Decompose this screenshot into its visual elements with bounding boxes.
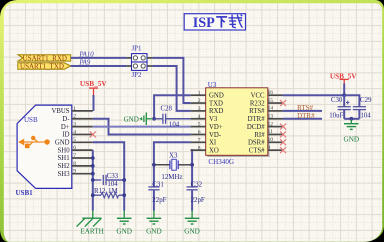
svg-text:104: 104 bbox=[107, 181, 118, 188]
junction crystal right bbox=[190, 163, 194, 167]
svg-text:U3: U3 bbox=[208, 81, 217, 89]
svg-text:GND: GND bbox=[55, 140, 70, 147]
svg-text:USB: USB bbox=[24, 116, 38, 124]
USB trident icon bbox=[18, 136, 50, 149]
svg-text:5: 5 bbox=[73, 137, 76, 143]
svg-text:V3: V3 bbox=[209, 116, 218, 123]
svg-text:3: 3 bbox=[198, 106, 201, 112]
USB1 pin 5 GND bbox=[72, 141, 93, 143]
svg-text:DSR#: DSR# bbox=[248, 140, 265, 147]
svg-text:104: 104 bbox=[360, 112, 371, 119]
svg-text:DTR#: DTR# bbox=[297, 112, 315, 120]
capacitor C29 104 bbox=[353, 106, 366, 108]
ground GND under C31 bbox=[153, 211, 155, 219]
U3 pin 10 DSR# bbox=[268, 141, 283, 143]
junction C33 left bbox=[91, 178, 95, 182]
wire DTR# bbox=[283, 118, 322, 120]
svg-text:9: 9 bbox=[73, 169, 76, 175]
header JP2 bbox=[132, 62, 148, 70]
svg-text:ISP: ISP bbox=[193, 15, 215, 31]
svg-text:104: 104 bbox=[169, 121, 180, 128]
ground GND under C32 bbox=[191, 211, 193, 219]
wire U3 XO pin8 to crystal bbox=[191, 150, 192, 187]
USB1 pin 4 ID bbox=[72, 133, 93, 135]
port USART1_TXD bbox=[18, 63, 71, 69]
svg-text:4: 4 bbox=[73, 129, 76, 135]
junction SH1 bbox=[91, 156, 95, 160]
U3 pin 12 DCD# bbox=[268, 126, 283, 128]
svg-text:VCC: VCC bbox=[251, 93, 265, 100]
svg-text:C28: C28 bbox=[161, 106, 173, 113]
svg-text:14: 14 bbox=[268, 106, 274, 112]
JP2 pin stubs bbox=[126, 65, 131, 67]
title box ISP download bbox=[184, 14, 245, 30]
U3 pin 3 RXD bbox=[191, 110, 206, 112]
U3 pin 13 DTR# bbox=[268, 118, 283, 120]
svg-text:8: 8 bbox=[198, 145, 201, 151]
svg-text:GND: GND bbox=[344, 135, 360, 143]
U3 pin 11 RI# bbox=[268, 133, 283, 135]
svg-text:RXD: RXD bbox=[209, 108, 223, 115]
svg-text:GND: GND bbox=[146, 227, 162, 235]
svg-text:VD-: VD- bbox=[209, 132, 222, 139]
wire PA9 port to JP2 bbox=[71, 65, 127, 67]
svg-text:5: 5 bbox=[198, 122, 201, 128]
svg-text:C33: C33 bbox=[107, 173, 119, 180]
svg-text:11: 11 bbox=[268, 129, 274, 135]
svg-text:SH2: SH2 bbox=[58, 163, 71, 170]
svg-text:7: 7 bbox=[198, 137, 201, 143]
wire shield rail SH0-SH3 to earth bbox=[92, 150, 94, 210]
U3 pin 15 R232 bbox=[268, 102, 283, 104]
U3 pin 9 CTS# bbox=[268, 149, 283, 151]
earth ground symbol bbox=[77, 211, 102, 227]
svg-text:CH340G: CH340G bbox=[208, 158, 234, 166]
svg-text:USB_5V: USB_5V bbox=[80, 79, 107, 88]
svg-text:SH1: SH1 bbox=[58, 155, 70, 162]
svg-text:1: 1 bbox=[198, 90, 201, 96]
svg-text:12: 12 bbox=[268, 121, 274, 127]
no-connect X pin15 bbox=[280, 100, 286, 106]
wire USB_5V to VBUS bbox=[93, 95, 95, 111]
U3 pin 14 RTS# bbox=[268, 110, 283, 112]
svg-text:13: 13 bbox=[268, 113, 274, 119]
junction R12 left bbox=[91, 193, 95, 197]
wire RTS# bbox=[283, 110, 322, 112]
svg-text:8: 8 bbox=[73, 161, 76, 167]
svg-text:16: 16 bbox=[268, 90, 274, 96]
resistor R12 bbox=[93, 194, 101, 196]
svg-text:C29: C29 bbox=[360, 97, 372, 104]
wire VCC pin16 to power rail bbox=[283, 94, 345, 96]
title glyph xia bbox=[216, 17, 227, 28]
no-connect X pin11 bbox=[280, 131, 286, 137]
svg-text:USART1_RXD: USART1_RXD bbox=[23, 54, 67, 62]
U3 pin 4 V3 bbox=[191, 118, 206, 120]
svg-text:VD+: VD+ bbox=[209, 124, 223, 131]
capacitor C30 10uF bbox=[343, 95, 345, 107]
power port GND sideways bbox=[140, 112, 152, 125]
wire JP2 to U3 RXD pin3 bbox=[152, 66, 190, 111]
svg-text:C32: C32 bbox=[191, 182, 203, 189]
svg-text:JP2: JP2 bbox=[132, 72, 143, 79]
wire caps to ground bbox=[344, 118, 359, 120]
svg-text:RTS#: RTS# bbox=[249, 108, 265, 115]
U3 pin 1 GND bbox=[191, 94, 206, 96]
USB1 pin 8 SH2 bbox=[72, 165, 93, 167]
header JP1 bbox=[132, 54, 148, 62]
svg-text:22pF: 22pF bbox=[152, 197, 166, 204]
svg-text:4: 4 bbox=[198, 114, 201, 120]
svg-text:D+: D+ bbox=[61, 124, 70, 131]
svg-text:C31: C31 bbox=[152, 182, 164, 189]
junction SH2 bbox=[91, 164, 95, 168]
svg-text:3: 3 bbox=[73, 122, 76, 128]
wire PA10 port to JP1 bbox=[71, 57, 127, 59]
svg-text:2: 2 bbox=[198, 98, 201, 104]
U3 pin 2 TXD bbox=[191, 102, 206, 104]
connector USB1 body bbox=[17, 105, 72, 188]
wire JP1 to U3 TXD pin2 bbox=[152, 58, 190, 103]
svg-text:15: 15 bbox=[268, 98, 274, 104]
U3 pin 6 VD- bbox=[191, 133, 206, 135]
USB1 pin 7 SH1 bbox=[72, 157, 93, 159]
svg-text:D-: D- bbox=[62, 116, 70, 123]
junction crystal left bbox=[152, 163, 156, 167]
svg-text:SH3: SH3 bbox=[58, 171, 71, 178]
svg-text:7: 7 bbox=[73, 153, 76, 159]
svg-text:6: 6 bbox=[73, 145, 76, 151]
U3 pin 5 VD+ bbox=[191, 126, 206, 128]
junction R12 right bbox=[122, 193, 126, 197]
svg-text:GND: GND bbox=[184, 227, 200, 235]
svg-text:USB1: USB1 bbox=[16, 189, 34, 197]
svg-text:R232: R232 bbox=[250, 100, 265, 107]
wire D+ to U3 VD+ pin5 bbox=[93, 126, 191, 128]
no-connect X pin12 bbox=[280, 124, 286, 130]
junction VCC bbox=[342, 93, 346, 97]
USB1 pin 2 D- bbox=[72, 118, 93, 120]
svg-text:10: 10 bbox=[268, 137, 274, 143]
svg-text:DTR#: DTR# bbox=[248, 116, 266, 123]
U3 pin 16 VCC bbox=[268, 94, 283, 96]
capacitor C32 bbox=[187, 186, 198, 188]
svg-text:XI: XI bbox=[209, 140, 217, 147]
USB1 pin 3 D+ bbox=[72, 126, 93, 128]
svg-text:22pF: 22pF bbox=[191, 197, 205, 204]
svg-text:USART1_TXD: USART1_TXD bbox=[20, 62, 64, 70]
svg-text:GND: GND bbox=[124, 115, 139, 123]
svg-text:ID: ID bbox=[62, 132, 69, 139]
svg-text:6: 6 bbox=[198, 130, 201, 136]
USB1 pin 9 SH3 bbox=[72, 173, 93, 175]
svg-text:RTS#: RTS# bbox=[297, 104, 313, 112]
svg-text:1M: 1M bbox=[108, 188, 118, 195]
no-connect X pin10 bbox=[280, 139, 286, 145]
svg-text:X3: X3 bbox=[169, 152, 178, 159]
no-connect X on USB ID pin bbox=[90, 131, 96, 137]
svg-text:XO: XO bbox=[209, 147, 219, 154]
JP1 pin stubs bbox=[126, 57, 131, 59]
svg-text:GND: GND bbox=[116, 227, 132, 235]
svg-text:SH0: SH0 bbox=[58, 147, 71, 154]
wire power drop bbox=[343, 84, 345, 96]
port USART1_RXD bbox=[18, 55, 71, 61]
wire GND junction to U3 GND pin1 bbox=[154, 95, 191, 119]
title glyph zai bbox=[229, 15, 243, 28]
svg-text:JP1: JP1 bbox=[132, 45, 143, 52]
U3 pin 7 XI bbox=[191, 141, 206, 143]
capacitor C31 bbox=[148, 186, 159, 188]
USB1 pin 6 SH0 bbox=[72, 149, 93, 151]
svg-text:EARTH: EARTH bbox=[80, 227, 104, 235]
svg-text:R12: R12 bbox=[94, 188, 106, 195]
wire rail to C29 bbox=[344, 95, 359, 107]
svg-text:TXD: TXD bbox=[209, 100, 223, 107]
IC U3 CH340G body bbox=[207, 90, 269, 158]
wire U3 XI pin7 to crystal bbox=[154, 142, 191, 187]
junction ground drop bbox=[349, 117, 353, 121]
ground GND under shield rail bbox=[123, 211, 125, 219]
svg-text:VBUS: VBUS bbox=[51, 108, 69, 115]
capacitor C28 bbox=[154, 118, 163, 120]
svg-text:10uF: 10uF bbox=[329, 112, 343, 119]
svg-text:DCD#: DCD# bbox=[247, 124, 265, 131]
svg-text:2: 2 bbox=[73, 114, 76, 120]
no-connect X pin9 bbox=[280, 147, 286, 153]
svg-text:9: 9 bbox=[268, 145, 271, 151]
junction C33 right bbox=[122, 178, 126, 182]
wire GND pin to ground rail bbox=[93, 142, 124, 210]
U3 pin 8 XO bbox=[191, 149, 206, 151]
svg-text:GND: GND bbox=[209, 93, 224, 100]
ground GND power section bbox=[350, 120, 352, 124]
svg-text:CTS#: CTS# bbox=[249, 147, 265, 154]
svg-text:C30: C30 bbox=[331, 97, 343, 104]
svg-text:12MHz: 12MHz bbox=[161, 174, 182, 181]
wire D- to U3 VD- pin6 bbox=[93, 119, 191, 135]
svg-text:RI#: RI# bbox=[254, 132, 265, 139]
USB1 pin 1 VBUS bbox=[72, 110, 93, 112]
svg-text:1: 1 bbox=[73, 106, 76, 112]
capacitor C33 bbox=[93, 179, 102, 181]
junction SH3 bbox=[91, 172, 95, 176]
